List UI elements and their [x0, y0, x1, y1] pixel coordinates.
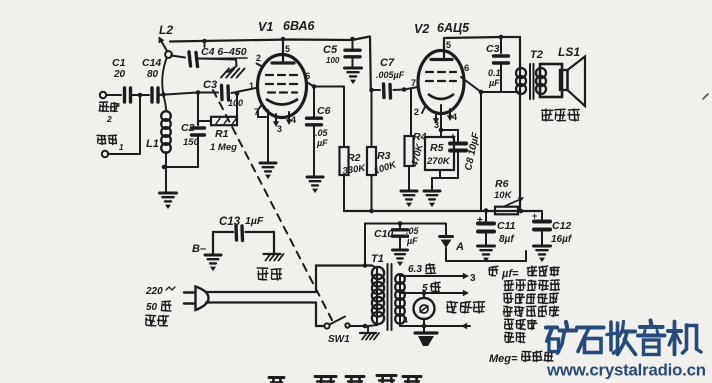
- svg-text:4: 4: [291, 115, 296, 125]
- capacitor C1: [123, 88, 126, 102]
- junction C10: [398, 221, 403, 226]
- svg-text:Meg=: Meg=: [489, 353, 518, 365]
- ground C12: [534, 245, 551, 248]
- ground R5 C8: [424, 190, 440, 193]
- capacitor C10: [399, 224, 401, 230]
- transformer T1 core: [387, 264, 389, 330]
- ground C10: [393, 249, 408, 252]
- tube V2 cathode: [428, 94, 454, 99]
- svg-text:R5: R5: [430, 142, 444, 154]
- svg-text:µF: µF: [316, 138, 328, 148]
- capacitor C12: [541, 211, 543, 219]
- resistor R4: [410, 89, 412, 136]
- tube V1 plate: [281, 37, 286, 42]
- plug: [184, 291, 195, 293]
- wire curved link to L1: [162, 57, 167, 112]
- tube V2 heater pins 3 4: [435, 112, 437, 119]
- svg-text:C10: C10: [374, 228, 393, 240]
- label chassis: [257, 267, 268, 269]
- watermark crystalradio logo text: [546, 325, 557, 329]
- note line3: [504, 292, 512, 294]
- label indicator lamp: [447, 301, 458, 304]
- svg-text:T2: T2: [530, 49, 543, 61]
- svg-text:16µf: 16µf: [551, 234, 573, 245]
- transformer T2 core: [529, 64, 531, 99]
- svg-text:V1: V1: [258, 20, 273, 34]
- transformer T2 secondary: [536, 68, 546, 78]
- wire grid node down: [197, 93, 199, 126]
- svg-text:C12: C12: [552, 220, 571, 232]
- svg-text:1: 1: [119, 143, 124, 152]
- svg-text:2: 2: [414, 107, 419, 117]
- svg-text:A: A: [455, 241, 464, 253]
- svg-text:.05: .05: [315, 128, 329, 138]
- capacitor C14: [150, 88, 153, 102]
- wire to ground L1: [165, 167, 167, 192]
- note line1: [489, 266, 497, 268]
- tube V2 envelope: [418, 51, 464, 114]
- svg-text:R2: R2: [347, 152, 361, 164]
- svg-text:5: 5: [285, 44, 290, 54]
- svg-text:6.3: 6.3: [408, 264, 422, 275]
- svg-text:C2: C2: [181, 122, 195, 134]
- svg-text:µF: µF: [488, 78, 500, 88]
- svg-text:.05: .05: [406, 226, 420, 236]
- wire C7 to V2 grid: [404, 87, 418, 90]
- svg-text:2: 2: [106, 114, 112, 124]
- note line5: [505, 318, 514, 320]
- chassis of C4 rotor: [228, 66, 237, 72]
- junction L1 top: [161, 92, 166, 97]
- tube V1 heater pins 3 4: [275, 114, 277, 122]
- svg-text:1 Meg: 1 Meg: [210, 142, 237, 153]
- svg-text:7: 7: [411, 78, 416, 88]
- svg-text:T1: T1: [371, 253, 384, 265]
- chassis C13: [264, 253, 281, 255]
- ground V1: [260, 162, 276, 165]
- ground C5: [345, 67, 362, 70]
- svg-text:0.1: 0.1: [488, 68, 501, 78]
- capacitor C6: [313, 87, 315, 118]
- tube V1 cathode: [266, 99, 298, 105]
- transformer T2 primary: [519, 37, 521, 211]
- capacitor C5: [350, 37, 355, 42]
- svg-text:C7: C7: [380, 57, 395, 69]
- svg-text:L1: L1: [146, 138, 159, 150]
- svg-text:www.crystalradio.cn: www.crystalradio.cn: [546, 361, 706, 380]
- capacitor C13: [213, 231, 233, 233]
- svg-text:100: 100: [326, 56, 340, 65]
- chassis T1: [367, 326, 369, 332]
- svg-text:6: 6: [305, 71, 310, 82]
- wire rectifier feed: [364, 224, 366, 266]
- junction grid node: [196, 90, 201, 95]
- capacitor C11: [485, 211, 487, 222]
- inductor L1: [161, 111, 171, 121]
- svg-text:µF: µF: [406, 236, 418, 246]
- wire B+ line: [344, 210, 542, 212]
- svg-text:4: 4: [452, 112, 457, 122]
- resistor R3: [369, 37, 372, 91]
- wire C4 stator to rail: [204, 41, 206, 47]
- capacitor C3 plate bypass: [499, 35, 504, 40]
- svg-text:C11: C11: [497, 220, 516, 232]
- svg-text:7: 7: [254, 107, 259, 117]
- svg-text:L2: L2: [159, 23, 173, 37]
- svg-text:6: 6: [464, 63, 469, 74]
- svg-text:C5: C5: [323, 44, 338, 56]
- capacitor C3: [198, 92, 218, 94]
- resistor R5: [440, 105, 442, 137]
- svg-text:1µF: 1µF: [245, 215, 264, 227]
- svg-text:6ВА6: 6ВА6: [283, 19, 316, 33]
- tube V2 grid dashes row2: [426, 80, 433, 82]
- scratch mark top right: [703, 94, 708, 99]
- tube V1 grid dashes row1: [266, 74, 273, 76]
- svg-text:3: 3: [434, 120, 439, 130]
- svg-text:LS1: LS1: [558, 45, 580, 59]
- chassis lamp: [415, 331, 437, 334]
- dashed link tuning to SW1: [213, 90, 332, 320]
- label antenna-2: [100, 101, 108, 103]
- svg-text:3: 3: [277, 124, 282, 134]
- wire plate drop to B+ line: [480, 92, 482, 211]
- junction T2 return: [519, 209, 524, 214]
- diode A selenium rectifier: [445, 224, 447, 237]
- terminal antenna-1: [102, 151, 108, 157]
- terminal antenna-2: [100, 92, 106, 98]
- label antenna-1: [97, 134, 105, 137]
- speaker LS1: [540, 64, 562, 97]
- svg-text:SW1: SW1: [328, 334, 350, 345]
- label speaker: [542, 109, 553, 111]
- tube V1 grid dashes row3: [268, 91, 275, 93]
- svg-text:.005µF: .005µF: [376, 70, 405, 80]
- svg-text:100: 100: [228, 98, 243, 108]
- capacitor C8: [439, 128, 444, 133]
- svg-text:150: 150: [183, 137, 200, 148]
- svg-text:20: 20: [113, 69, 126, 80]
- junction rail-C4: [202, 39, 207, 44]
- svg-text:C3: C3: [486, 43, 500, 55]
- wire C3 to grid pin1: [232, 88, 259, 94]
- svg-text:1: 1: [249, 81, 254, 91]
- ground C6: [307, 176, 323, 179]
- svg-text:50: 50: [146, 302, 158, 313]
- svg-text:6АЦ5: 6АЦ5: [437, 21, 470, 35]
- wire mains bottom: [206, 303, 323, 327]
- svg-text:+: +: [450, 132, 456, 143]
- ground C11: [478, 245, 495, 248]
- junction antenna1 tap: [138, 93, 143, 98]
- ground R4: [401, 190, 417, 193]
- svg-text:4: 4: [403, 315, 408, 325]
- wire diode return: [446, 251, 526, 261]
- caption fragments: [269, 376, 284, 379]
- svg-text:270K: 270K: [426, 156, 451, 167]
- svg-text:R1: R1: [215, 128, 229, 140]
- transformer T1 secondary: [399, 276, 401, 326]
- note line6: [505, 332, 512, 335]
- tube V1 pin7 stub: [258, 104, 266, 117]
- svg-text:C6: C6: [317, 105, 331, 117]
- wire C14 to L1 node: [158, 93, 197, 96]
- wire rectifier line: [365, 223, 446, 225]
- wire heater 6.3V: [400, 275, 464, 277]
- svg-text:3: 3: [470, 273, 476, 284]
- junction rectifier feed: [363, 263, 368, 268]
- wire V1 cathode to ground: [267, 110, 269, 162]
- tube V2 pin2 stub: [422, 107, 425, 113]
- svg-text:2: 2: [256, 53, 261, 63]
- wire L1 bottom to C2 bottom: [164, 166, 198, 168]
- svg-text:C3: C3: [203, 79, 217, 91]
- svg-text:80: 80: [147, 69, 159, 80]
- switch SW1: [324, 323, 329, 328]
- variable capacitor C4 6-450: [171, 56, 185, 58]
- resistor R1: [198, 120, 211, 122]
- resistor R6: [495, 207, 518, 215]
- wire V2 plate top segment: [444, 37, 520, 38]
- tube V1 envelope: [258, 55, 307, 118]
- svg-text:10K: 10K: [494, 190, 513, 201]
- svg-text:V2: V2: [414, 22, 429, 36]
- tube V1 pin2 stub: [257, 64, 264, 68]
- svg-text:C14: C14: [142, 57, 161, 69]
- wire 5V tap: [400, 292, 464, 294]
- svg-text:5: 5: [422, 283, 428, 294]
- ground C13: [205, 254, 221, 257]
- transformer T1 primary: [372, 266, 377, 269]
- junction C11: [484, 208, 489, 213]
- wire mains top: [206, 266, 372, 293]
- capacitor C7: [369, 88, 374, 93]
- junction C3-R1: [235, 91, 240, 96]
- junction L1 bottom: [162, 165, 167, 170]
- svg-text:8µf: 8µf: [499, 234, 515, 245]
- wire C1-C14: [131, 94, 150, 96]
- tube V2 grid dashes row1: [426, 71, 433, 73]
- svg-text:R6: R6: [495, 178, 509, 190]
- tube V2 plate: [443, 38, 445, 57]
- wire heater return: [422, 324, 427, 329]
- svg-text:µf=: µf=: [501, 268, 519, 280]
- note line4: [504, 306, 512, 308]
- svg-text:C4 6–450: C4 6–450: [201, 46, 247, 58]
- svg-text:5: 5: [446, 40, 451, 50]
- svg-text:220: 220: [145, 286, 163, 297]
- ground L1: [160, 192, 177, 195]
- resistor R2: [343, 87, 345, 148]
- capacitor C2: [192, 126, 205, 129]
- wire top rail V1 plate: [170, 37, 370, 42]
- note line2: [505, 280, 513, 283]
- indicator lamp: [423, 293, 425, 298]
- svg-text:B–: B–: [192, 243, 206, 255]
- tube V1 grid dashes row2: [266, 83, 273, 85]
- svg-text:C1: C1: [112, 57, 126, 69]
